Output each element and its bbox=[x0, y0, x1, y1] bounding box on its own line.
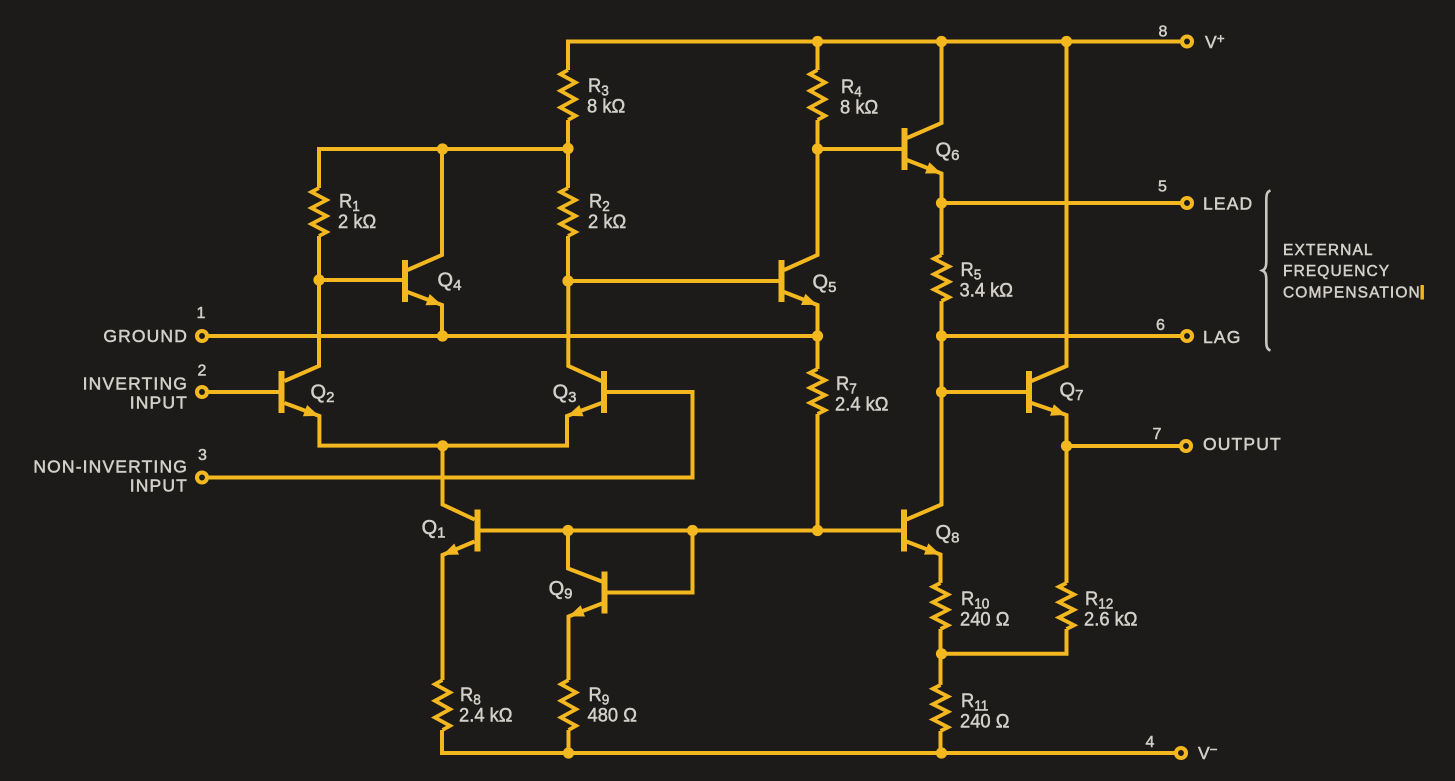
node R3/R2 bbox=[562, 143, 573, 154]
label R10 value bbox=[960, 589, 1009, 631]
wire Q6 collector to V+ rail bbox=[907, 42, 942, 139]
label R5 value bbox=[960, 260, 1013, 302]
wire R4 lead-in bbox=[816, 42, 820, 71]
svg-text:1: 1 bbox=[196, 305, 206, 322]
terminal pin 6 LAG bbox=[1182, 331, 1192, 341]
node tail rail bbox=[437, 440, 448, 451]
node OUTPUT/Q7 emitter bbox=[1061, 440, 1072, 451]
transistor Q8 bar bbox=[901, 510, 907, 552]
label R3 value bbox=[587, 76, 625, 118]
wire LAG pin bbox=[942, 334, 1181, 338]
wire Q3 base loop to non-inverting input bbox=[209, 392, 693, 478]
svg-text:GROUND: GROUND bbox=[103, 326, 188, 346]
transistor Q6 emitter arrow bbox=[925, 162, 941, 173]
svg-text:240 Ω: 240 Ω bbox=[960, 609, 1009, 631]
wire Q9 emitter to R9 bbox=[569, 604, 603, 681]
node V-/R9 bbox=[563, 747, 574, 758]
svg-text:240 Ω: 240 Ω bbox=[960, 711, 1009, 733]
wire R4 bottom column to Q5 collector bbox=[784, 120, 818, 270]
resistor R7 bbox=[810, 369, 825, 414]
yellow scan tick bbox=[1421, 285, 1424, 300]
svg-text:480 Ω: 480 Ω bbox=[588, 705, 637, 727]
svg-text:4: 4 bbox=[1145, 734, 1155, 751]
transistor Q7 bar bbox=[1026, 371, 1032, 413]
label R12 value bbox=[1084, 589, 1137, 631]
node V+/R4 bbox=[812, 36, 823, 47]
label R9 value bbox=[588, 685, 637, 727]
wire ground rail bbox=[209, 334, 818, 338]
node ground/Q5 emitter/R7 bbox=[812, 330, 823, 341]
svg-text:3.4 kΩ: 3.4 kΩ bbox=[960, 280, 1013, 302]
node R10/R11/R12 bbox=[936, 648, 947, 659]
svg-text:FREQUENCY: FREQUENCY bbox=[1283, 263, 1390, 280]
wire Q3 collector bbox=[568, 281, 601, 381]
wire Q6 emitter to lead node bbox=[907, 160, 942, 203]
transistor Q8 emitter arrow bbox=[924, 543, 940, 554]
transistor Q1 emitter arrow bbox=[443, 544, 459, 555]
resistor R11 bbox=[933, 685, 948, 731]
svg-text:INPUT: INPUT bbox=[130, 393, 188, 413]
node R2 bottom bbox=[562, 275, 573, 286]
terminal pin 2 INVERTING INPUT bbox=[197, 387, 207, 397]
wire Q9 base loop bbox=[607, 531, 693, 593]
svg-text:7: 7 bbox=[1152, 426, 1162, 443]
wire R5 lead-in bbox=[940, 203, 944, 255]
label R1 value bbox=[338, 191, 376, 233]
svg-text:5: 5 bbox=[1158, 179, 1168, 196]
wire R2 lead-in bbox=[566, 149, 570, 189]
label R8 value bbox=[459, 685, 512, 727]
node V+/Q6 bbox=[936, 36, 947, 47]
wire R5 bottom lead bbox=[940, 301, 944, 336]
wire Q7 base bbox=[942, 390, 1027, 394]
wire R9 bottom lead bbox=[567, 730, 571, 753]
svg-text:8: 8 bbox=[1158, 24, 1168, 41]
node V-/R11 bbox=[936, 747, 947, 758]
svg-text:NON-INVERTING: NON-INVERTING bbox=[33, 457, 188, 477]
svg-text:COMPENSATION: COMPENSATION bbox=[1283, 285, 1421, 302]
wire R7 bottom lead bbox=[816, 414, 820, 531]
svg-text:8 kΩ: 8 kΩ bbox=[840, 97, 878, 119]
wire Q7 emitter to output node bbox=[1032, 403, 1067, 446]
wire Q8 emitter to R10 bbox=[907, 542, 941, 584]
svg-text:INVERTING: INVERTING bbox=[83, 374, 188, 394]
resistor R5 bbox=[934, 255, 949, 301]
wire Q1 emitter to R8 bbox=[443, 542, 475, 681]
label R7 value bbox=[835, 374, 888, 416]
terminal pin 7 OUTPUT bbox=[1181, 441, 1191, 451]
label R11 value bbox=[960, 691, 1009, 733]
transistor Q2 bar bbox=[279, 371, 285, 413]
wire Q2/Q3 emitter tail rail bbox=[285, 403, 602, 446]
svg-text:2 kΩ: 2 kΩ bbox=[588, 212, 626, 234]
resistor R2 bbox=[560, 188, 575, 236]
wire tail node drop to Q1 collector bbox=[443, 446, 475, 520]
brace external compensation bbox=[1262, 191, 1270, 351]
wire R3 bottom lead bbox=[566, 120, 570, 149]
node rail/Q9 base bbox=[687, 525, 698, 536]
wire lag column to Q8 collector bbox=[907, 336, 942, 520]
node R1 bottom bbox=[313, 274, 324, 285]
svg-text:2 kΩ: 2 kΩ bbox=[338, 212, 376, 234]
node ground/Q4 emitter bbox=[437, 330, 448, 341]
resistor R9 bbox=[561, 680, 576, 730]
node rail/R7 bbox=[812, 525, 823, 536]
wire Q5 emitter to ground node bbox=[784, 292, 818, 336]
transistor Q3 emitter arrow bbox=[567, 405, 583, 416]
terminal pin 1 GROUND bbox=[197, 331, 207, 341]
wire Q9 collector bbox=[568, 531, 602, 582]
node R3 bottom / Q4 bbox=[437, 143, 448, 154]
transistor Q5 emitter arrow bbox=[801, 294, 817, 305]
wire R1-R3 link with R1 lead-in bbox=[319, 149, 568, 188]
wire V+ top rail with R3 lead-in bbox=[568, 42, 1181, 71]
terminal pin 5 LEAD bbox=[1182, 198, 1192, 208]
wire inverting input bbox=[209, 390, 279, 394]
transistor Q7 emitter arrow bbox=[1050, 404, 1066, 415]
wire R11 bottom lead bbox=[939, 731, 943, 753]
resistor R10 bbox=[933, 583, 948, 629]
wire R2 bottom to Q5 base bbox=[568, 236, 779, 281]
label R2 value bbox=[588, 191, 626, 233]
wire Q4 base bbox=[319, 278, 402, 282]
node LEAD/Q6 emitter bbox=[936, 197, 947, 208]
resistor R8 bbox=[435, 680, 450, 730]
resistor R3 bbox=[560, 70, 575, 120]
svg-text:OUTPUT: OUTPUT bbox=[1203, 434, 1282, 454]
node V+/Q7 drop bbox=[1061, 36, 1072, 47]
terminal pin 4 V- bbox=[1176, 748, 1186, 758]
svg-text:8 kΩ: 8 kΩ bbox=[587, 96, 625, 118]
svg-text:2: 2 bbox=[197, 363, 207, 380]
transistor Q6 bar bbox=[902, 128, 908, 170]
wire Q4 emitter to ground bbox=[408, 292, 443, 336]
svg-text:2.4 kΩ: 2.4 kΩ bbox=[835, 394, 888, 416]
transistor Q2 emitter arrow bbox=[303, 405, 319, 416]
transistor Q9 emitter arrow bbox=[569, 605, 585, 616]
resistor R12 bbox=[1059, 583, 1074, 629]
wire V+ drop to Q7 collector bbox=[1032, 42, 1067, 382]
svg-text:6: 6 bbox=[1156, 317, 1166, 334]
resistor R1 bbox=[311, 188, 326, 236]
node rail/Q9 collector bbox=[562, 525, 573, 536]
wire R7 lead-in bbox=[816, 336, 820, 369]
node R4/Q6 base bbox=[812, 143, 823, 154]
terminal pin 3 NON-INVERTING INPUT bbox=[197, 473, 207, 483]
wire R11 lead-in bbox=[939, 654, 943, 685]
transistor Q5 bar bbox=[779, 260, 785, 302]
wire R12 lead-in bbox=[1065, 446, 1069, 583]
terminal pin 8 V+ bbox=[1182, 37, 1192, 47]
wire Q4 collector bbox=[408, 149, 443, 270]
wire Q6 base bbox=[818, 147, 902, 151]
wire V- bottom rail bbox=[442, 730, 1175, 753]
label R4 value bbox=[840, 77, 878, 119]
svg-text:LEAD: LEAD bbox=[1203, 194, 1253, 214]
transistor Q9 bar bbox=[602, 572, 608, 614]
svg-text:2.4 kΩ: 2.4 kΩ bbox=[459, 705, 512, 727]
svg-text:LAG: LAG bbox=[1203, 327, 1241, 347]
wire LEAD pin bbox=[942, 201, 1181, 205]
svg-text:EXTERNAL: EXTERNAL bbox=[1283, 242, 1374, 259]
node Q7 base bbox=[936, 386, 947, 397]
transistor Q4 bar bbox=[402, 260, 408, 302]
wire R12 bottom corner bbox=[942, 629, 1067, 654]
svg-text:2.6 kΩ: 2.6 kΩ bbox=[1084, 609, 1137, 631]
wire R10 bottom lead bbox=[939, 629, 943, 654]
svg-text:3: 3 bbox=[198, 447, 208, 464]
transistor Q4 emitter arrow bbox=[426, 294, 442, 305]
transistor Q1 bar bbox=[475, 510, 481, 552]
transistor Q3 bar bbox=[601, 371, 607, 413]
wire OUTPUT pin bbox=[1067, 444, 1180, 448]
resistor R4 bbox=[810, 70, 825, 120]
wire Q1-Q8 base rail bbox=[481, 529, 902, 533]
svg-text:INPUT: INPUT bbox=[130, 476, 188, 496]
node LAG/R5 bbox=[936, 330, 947, 341]
wire R1 bottom column to Q2 collector bbox=[285, 236, 320, 381]
